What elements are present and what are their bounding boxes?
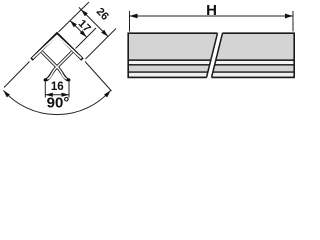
dimension line 16 — [45, 94, 69, 96]
profile bar side view body — [128, 33, 294, 77]
bar outline — [128, 33, 294, 77]
svg-text:16: 16 — [51, 81, 64, 93]
break edge left — [207, 33, 218, 77]
bar groove light band — [128, 61, 294, 64]
bar lower groove dark line — [128, 71, 294, 73]
90 degree angle arc — [3, 90, 110, 114]
bar groove dark line lower — [128, 64, 294, 66]
extension line from channel corner (NE) — [76, 28, 97, 49]
bar lower light band — [128, 73, 294, 76]
svg-text:H: H — [206, 2, 217, 19]
extension line from apex (NE) — [59, 2, 90, 32]
extension line from right wing tip (NE) — [86, 29, 117, 60]
dimension line H — [130, 15, 294, 17]
break gap in bar — [207, 32, 223, 78]
left glass channel wall — [41, 51, 69, 80]
extension lines for 16 — [44, 82, 46, 98]
break edge right — [212, 33, 223, 77]
wall hollow cores — [33, 36, 82, 59]
extension line H left — [129, 11, 131, 32]
corner profile cross-section outer walls (roof) — [32, 34, 83, 60]
svg-text:90°: 90° — [47, 95, 70, 112]
extension line H right — [292, 11, 294, 32]
dimension line 26 — [79, 7, 108, 36]
bar groove dark line upper — [128, 59, 294, 61]
svg-text:26: 26 — [94, 6, 111, 23]
dimension line 17 — [70, 21, 87, 38]
extension line from left wing tip (SW) — [4, 62, 30, 88]
right glass channel wall — [45, 51, 73, 80]
svg-text:17: 17 — [76, 18, 93, 35]
extension line from right wing tip (SE) — [85, 62, 112, 92]
